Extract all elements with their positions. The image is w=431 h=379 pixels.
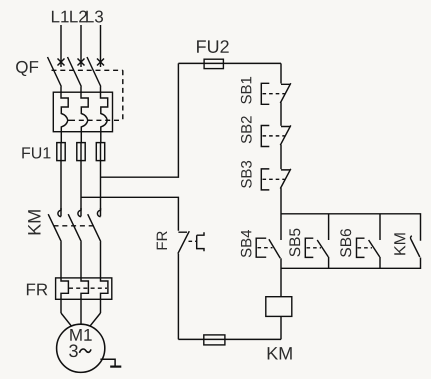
overload relay FR heater pole1 xyxy=(61,278,68,313)
breaker QF pole2 x-contact xyxy=(78,59,85,66)
overload relay FR label xyxy=(27,284,47,296)
button SB6 NO contact xyxy=(369,214,380,268)
control top wire xyxy=(178,62,281,64)
wire pole1 to motor xyxy=(61,313,72,326)
overload relay FR box xyxy=(56,278,112,299)
control bottom wire xyxy=(178,338,281,340)
breaker QF pole3 thermal release xyxy=(101,87,110,143)
thermal contact FR label (rotated) xyxy=(157,231,167,249)
breaker QF pole2 blade xyxy=(68,57,82,87)
fuse FU1 pole3 xyxy=(96,143,104,161)
coil KM label xyxy=(268,347,292,359)
wire SB3 to SB4 xyxy=(280,188,282,240)
fuse FU2b bottom xyxy=(204,335,225,345)
wire parallel branch bottom xyxy=(281,258,421,269)
wire SB4 to coil xyxy=(280,258,282,296)
wire FR to bottom xyxy=(177,254,179,340)
motor 3-phase label xyxy=(69,344,78,357)
breaker QF release box xyxy=(53,92,112,132)
motor M1 circle xyxy=(57,324,105,372)
button SB4 label (rotated) xyxy=(241,230,252,257)
button SB2 label (rotated) xyxy=(241,116,252,143)
button SB2 NC contact xyxy=(280,125,291,145)
contactor KM aux label (rotated) xyxy=(394,233,405,254)
overload relay FR heater pole2 xyxy=(81,278,88,313)
breaker QF label xyxy=(16,61,38,76)
breaker QF pole1 thermal release xyxy=(61,87,70,143)
contactor KM main pole1 contact xyxy=(58,208,61,217)
button SB1 NC contact xyxy=(280,83,291,103)
thermal contact FR NC in control xyxy=(178,231,189,253)
contactor KM main link dashed xyxy=(54,225,96,227)
button SB3 NC contact xyxy=(280,169,291,189)
button SB6 label (rotated) xyxy=(340,229,351,257)
ground xyxy=(100,359,115,366)
node L1 label xyxy=(52,11,69,23)
wire L2 drop xyxy=(80,25,82,67)
wire branch L2 to control circuit xyxy=(81,197,178,231)
wire pole1 fuse to KM contact xyxy=(60,161,62,211)
coil KM xyxy=(266,297,292,317)
wire parallel branch top xyxy=(281,214,421,241)
wire branch L3 to control circuit xyxy=(101,63,179,177)
breaker QF pole1 x-contact xyxy=(58,59,65,66)
wire control right drop to SB1 xyxy=(280,63,282,83)
fuse FU1 pole2 xyxy=(77,143,85,161)
breaker QF mechanical link dashed xyxy=(52,69,123,71)
wire coil to bottom xyxy=(280,316,282,339)
wire pole2 fuse to KM contact xyxy=(80,161,82,211)
motor M1 label xyxy=(70,329,91,341)
button SB1 label (rotated) xyxy=(241,77,252,104)
contactor KM main pole3 contact xyxy=(97,208,100,217)
contactor KM aux NO contact xyxy=(411,236,420,257)
fuse FU2 label xyxy=(197,40,229,53)
wire pole2 to motor xyxy=(80,313,82,324)
button SB4 NO contact xyxy=(269,239,280,258)
breaker QF pole3 x-contact xyxy=(97,59,104,66)
breaker QF pole1 blade xyxy=(48,57,62,87)
contactor KM main pole2 contact xyxy=(78,208,81,217)
overload relay FR heater pole3 xyxy=(101,278,108,313)
button SB5 label (rotated) xyxy=(289,229,300,257)
wire SB1 to SB2 xyxy=(280,103,282,126)
node L2 label xyxy=(70,11,87,23)
wire pole3 fuse to KM contact xyxy=(100,161,102,211)
breaker QF trip link dashed vertical xyxy=(122,70,124,120)
fuse FU1 pole1 xyxy=(57,143,65,161)
wire L3 drop xyxy=(100,25,102,67)
breaker QF pole3 blade xyxy=(87,57,101,87)
button SB3 label (rotated) xyxy=(241,161,252,188)
breaker QF pole2 thermal release xyxy=(81,87,90,143)
wire SB2 to SB3 xyxy=(280,145,282,170)
wire L1 drop xyxy=(60,25,62,67)
wire pole3 to motor xyxy=(90,313,101,326)
contactor KM main label (rotated) xyxy=(28,210,40,234)
fuse FU1 label xyxy=(22,147,50,158)
node L3 label xyxy=(86,11,103,23)
fuse FU2 xyxy=(204,59,223,68)
button SB5 NO contact xyxy=(317,214,328,268)
breaker QF trip line dashed inside box xyxy=(70,119,123,121)
overload relay FR link dashed xyxy=(69,287,107,289)
